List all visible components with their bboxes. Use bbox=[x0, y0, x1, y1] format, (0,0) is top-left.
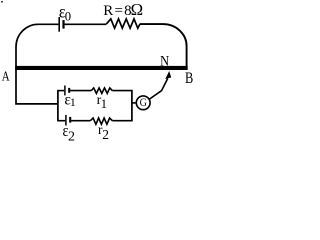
svg-text:2: 2 bbox=[102, 127, 109, 142]
svg-text:N: N bbox=[160, 52, 169, 68]
svg-text:G: G bbox=[140, 97, 147, 110]
svg-text:1: 1 bbox=[70, 95, 76, 109]
svg-text:2: 2 bbox=[68, 129, 75, 144]
svg-text:R=8: R=8 bbox=[103, 3, 133, 19]
svg-text:Ω: Ω bbox=[131, 0, 143, 19]
svg-text:A: A bbox=[2, 68, 10, 84]
svg-text:0: 0 bbox=[65, 10, 71, 24]
svg-text:1: 1 bbox=[101, 97, 107, 111]
svg-text:B: B bbox=[185, 70, 193, 88]
